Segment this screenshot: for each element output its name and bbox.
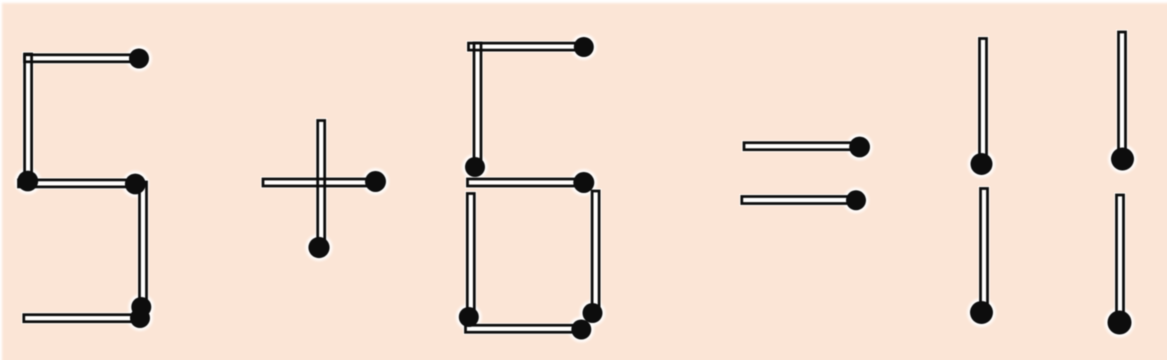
halo: digit 5 middle head xyxy=(122,171,148,197)
outline: digit 5 bottom matchstick xyxy=(24,315,140,322)
body: first digit 1 upper matchstick xyxy=(980,39,987,165)
outline: digit 6 lower-left vertical matchstick xyxy=(467,194,474,318)
head: digit 5 left vertical matchstick xyxy=(17,171,38,192)
body: digit 6 top matchstick xyxy=(469,43,584,50)
body: digit 6 lower-right vertical matchstick xyxy=(592,191,599,313)
halo: digit 5 top head xyxy=(126,46,152,72)
head: digit 6 lower-left matchstick xyxy=(459,307,479,327)
head: equals sign top matchstick xyxy=(849,137,870,158)
body: second digit 1 lower matchstick xyxy=(1117,195,1124,323)
head: equals sign bottom matchstick xyxy=(846,190,866,210)
body: plus sign vertical matchstick xyxy=(318,121,325,248)
halo: digit 6 top head xyxy=(571,34,597,60)
outline: first digit 1 upper matchstick xyxy=(980,39,987,165)
body: digit 5 right vertical matchstick xyxy=(140,182,147,307)
outline: digit 5 top matchstick xyxy=(25,55,140,62)
halo: digit 5 right-lower head xyxy=(129,294,155,320)
head: digit 6 lower-right matchstick xyxy=(583,303,603,323)
outline: digit 5 middle matchstick xyxy=(19,180,136,187)
halo: second digit 1 upper head xyxy=(1108,145,1137,174)
body: digit 5 left vertical matchstick xyxy=(25,54,32,181)
body: digit 5 top matchstick xyxy=(25,55,140,62)
outline: second digit 1 upper matchstick xyxy=(1119,32,1126,159)
head: digit 5 right vertical matchstick xyxy=(131,297,151,317)
halo: digit 5 left head xyxy=(15,168,41,194)
head: plus sign vertical matchstick xyxy=(308,237,329,258)
head: first digit 1 lower matchstick xyxy=(970,301,993,324)
halo: digit 5 bottom head xyxy=(127,305,153,331)
head: digit 5 bottom matchstick xyxy=(130,308,150,328)
halo: equals top head xyxy=(846,134,872,160)
outline: equals sign top matchstick xyxy=(744,143,860,150)
body: digit 6 bottom matchstick xyxy=(466,325,582,332)
halo: digit 6 lower-left head xyxy=(456,304,482,330)
head: first digit 1 upper matchstick xyxy=(971,153,993,175)
body: equals sign top matchstick xyxy=(744,143,860,150)
head: second digit 1 lower matchstick xyxy=(1108,311,1132,335)
head: digit 6 top matchstick xyxy=(574,37,594,57)
body: digit 5 middle matchstick xyxy=(19,180,136,187)
outline: first digit 1 lower matchstick xyxy=(981,189,988,313)
halo: second digit 1 lower head xyxy=(1105,308,1135,338)
outline: digit 6 upper-left vertical matchstick xyxy=(474,43,481,167)
head: digit 5 middle matchstick xyxy=(125,174,146,195)
outline: digit 5 left vertical matchstick xyxy=(25,54,32,181)
body: first digit 1 lower matchstick xyxy=(981,189,988,313)
halo: digit 6 lower-right head xyxy=(580,300,606,326)
body: equals sign bottom matchstick xyxy=(742,197,856,204)
halo: digit 6 middle head xyxy=(571,169,598,196)
halo: digit 6 bottom head xyxy=(569,317,595,343)
halo: first digit 1 upper head xyxy=(968,150,996,178)
halo: first digit 1 lower head xyxy=(967,298,996,327)
outline: second digit 1 lower matchstick xyxy=(1117,195,1124,323)
halo: plus vertical head xyxy=(306,234,333,261)
halo: digit 6 upper-left head xyxy=(462,154,488,180)
body: digit 5 bottom matchstick xyxy=(24,315,140,322)
body: plus sign horizontal matchstick xyxy=(263,179,376,186)
head: digit 6 middle matchstick xyxy=(573,172,594,193)
body: digit 6 upper-left vertical matchstick xyxy=(474,43,481,167)
halo: equals bottom head xyxy=(843,188,869,214)
head: second digit 1 upper matchstick xyxy=(1111,148,1134,171)
outline: digit 5 right vertical matchstick xyxy=(140,182,147,307)
body: digit 6 middle matchstick xyxy=(468,179,584,186)
outline: digit 6 top matchstick xyxy=(469,43,584,50)
outline: digit 6 lower-right vertical matchstick xyxy=(592,191,599,313)
outline: equals sign bottom matchstick xyxy=(742,197,856,204)
layer: black match outlines xyxy=(19,32,1126,332)
outline: digit 6 middle matchstick xyxy=(468,179,584,186)
body: second digit 1 upper matchstick xyxy=(1119,32,1126,159)
halo: plus horizontal head xyxy=(362,168,389,195)
body: digit 6 lower-left vertical matchstick xyxy=(467,194,474,318)
head: digit 5 top matchstick xyxy=(129,49,149,69)
head: plus sign horizontal matchstick xyxy=(365,171,386,192)
outline: plus sign vertical matchstick xyxy=(318,121,325,248)
head: digit 6 upper-left matchstick xyxy=(465,157,485,177)
outline: digit 6 bottom matchstick xyxy=(466,325,582,332)
layer: white match bodies with pale halo xyxy=(19,32,1126,332)
head: digit 6 bottom matchstick xyxy=(571,320,591,340)
outline: plus sign horizontal matchstick xyxy=(263,179,376,186)
